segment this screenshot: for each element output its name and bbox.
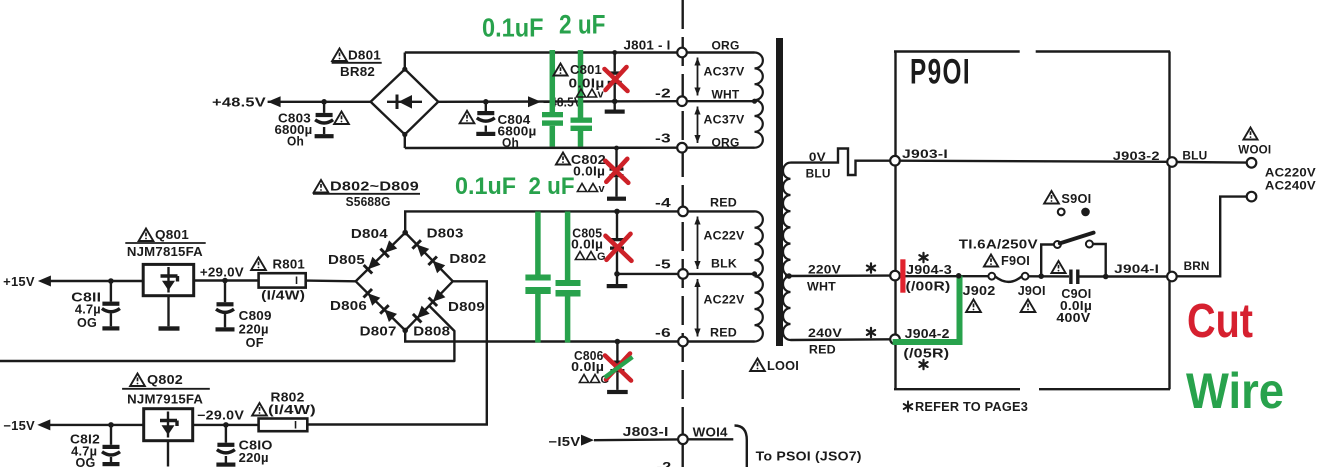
svg-text:2 uF: 2 uF xyxy=(559,10,606,40)
svg-text:AC220V: AC220V xyxy=(1265,166,1316,180)
svg-text:F9OI: F9OI xyxy=(1001,254,1030,268)
wire bridge right vertex to -29V feed xyxy=(307,281,487,424)
label L001 xyxy=(750,359,765,372)
svg-text:D807: D807 xyxy=(360,325,397,339)
chassis ground below C801 xyxy=(605,110,625,114)
capacitor C806 xyxy=(616,342,618,361)
svg-text:400V: 400V xyxy=(1056,311,1091,325)
svg-text:S9OI: S9OI xyxy=(1061,192,1091,206)
svg-text:−29.0V: −29.0V xyxy=(197,409,245,423)
cut mark X over C801 red xyxy=(605,67,628,91)
transformer primary tap -2 xyxy=(752,99,757,104)
node switch right xyxy=(1103,274,1109,280)
transformer core xyxy=(776,38,783,346)
svg-text:BRN: BRN xyxy=(1184,259,1210,273)
label C801 xyxy=(553,64,567,76)
diode D803 xyxy=(417,245,430,258)
svg-text:OG: OG xyxy=(77,316,97,330)
connector -6 terminal xyxy=(678,337,688,347)
svg-text:D802: D802 xyxy=(449,252,486,266)
capacitor C801 xyxy=(614,53,616,72)
wire AC240V to J904-1 xyxy=(1177,197,1248,277)
connector J904-3 terminal xyxy=(890,271,900,281)
node D801 top vertex xyxy=(402,67,407,72)
svg-text:AC240V: AC240V xyxy=(1265,179,1316,193)
node switch left xyxy=(1038,273,1044,279)
svg-text:BR82: BR82 xyxy=(340,65,375,79)
capacitor C901 xyxy=(1069,270,1072,285)
transformer T primary winding upper xyxy=(755,53,763,148)
capacitor C803 xyxy=(323,102,325,113)
diode D808 xyxy=(417,306,430,319)
svg-text:Cut: Cut xyxy=(1187,295,1253,348)
added capacitor 0.1uF green (lower) xyxy=(535,212,541,275)
capacitor C810 xyxy=(225,425,227,443)
svg-text:-4: -4 xyxy=(655,196,671,210)
regulator Q801 NJM7815FA xyxy=(139,229,154,242)
wire 240V RED xyxy=(791,338,891,341)
red cut bar at J904-3 xyxy=(900,259,905,292)
svg-text:Wire: Wire xyxy=(1186,363,1284,419)
svg-text:RED: RED xyxy=(710,198,737,210)
svg-text:D802~D809: D802~D809 xyxy=(330,180,419,194)
connector -5 terminal xyxy=(678,269,688,279)
added capacitor 0.1uF green (top) xyxy=(550,50,556,112)
wire BLU to W001 xyxy=(1177,161,1248,164)
svg-text:(I/4W): (I/4W) xyxy=(261,289,305,303)
svg-text:ORG: ORG xyxy=(712,41,740,53)
svg-text:220V: 220V xyxy=(808,263,841,277)
svg-text:BLU: BLU xyxy=(806,167,831,181)
svg-text:J903-2: J903-2 xyxy=(1113,149,1160,163)
wire -6 to transformer, RED xyxy=(688,340,755,342)
ground bar Q801 xyxy=(167,296,169,327)
node C804 junction xyxy=(483,99,489,105)
wire +48.5V feed xyxy=(268,101,371,103)
cut mark X over C806 red xyxy=(605,354,631,381)
diode symbol inside D801 xyxy=(387,101,422,103)
node +29.0V xyxy=(222,278,228,284)
svg-text:+29.0V: +29.0V xyxy=(200,266,244,280)
wire -2 to transformer, WHT xyxy=(687,100,755,102)
svg-text:TI.6A/250V: TI.6A/250V xyxy=(959,238,1039,252)
wire R801 to +29V node xyxy=(194,279,259,281)
wire Q802 to -15V xyxy=(46,424,144,426)
svg-text:-2: -2 xyxy=(655,87,671,101)
svg-text:240V: 240V xyxy=(808,326,842,340)
svg-text:J904-2: J904-2 xyxy=(905,327,950,341)
svg-text:(I/4W): (I/4W) xyxy=(268,403,316,417)
svg-text:D801: D801 xyxy=(348,49,381,63)
capacitor C802 xyxy=(615,148,617,168)
svg-text:BLU: BLU xyxy=(1182,149,1207,163)
wire 0V BLU with link symbol xyxy=(791,149,891,176)
label D801 BR82 xyxy=(332,49,347,62)
diode D807 xyxy=(385,310,398,323)
svg-text:P9OI: P9OI xyxy=(910,53,971,92)
connector -2 terminal xyxy=(677,96,687,106)
svg-text:220µ: 220µ xyxy=(239,323,269,337)
green stroke over C806 xyxy=(605,357,633,378)
transformer T secondary winding upper xyxy=(783,163,791,276)
svg-text:D804: D804 xyxy=(351,227,388,241)
svg-text:4.7µ: 4.7µ xyxy=(75,303,101,317)
note refer to page 3 xyxy=(904,402,913,412)
transformer T secondary winding lower xyxy=(783,276,790,340)
wire J904-3 to fuse xyxy=(900,275,989,277)
bridge rectifier D802-D809 diamond xyxy=(356,233,453,331)
diode D805 xyxy=(368,257,381,270)
transformer primary tap -5 xyxy=(752,271,757,276)
node bridge top vertex xyxy=(402,230,408,236)
connector J903-1 terminal xyxy=(890,156,900,166)
svg-text:220µ: 220µ xyxy=(239,451,269,465)
svg-text:-3: -3 xyxy=(655,132,671,146)
svg-text:C809: C809 xyxy=(239,309,272,323)
svg-text:2 uF: 2 uF xyxy=(529,173,575,200)
svg-text:BLK: BLK xyxy=(711,259,738,271)
connector J801-1 terminal xyxy=(677,48,687,58)
svg-text:Q802: Q802 xyxy=(147,373,183,387)
svg-text:Oh: Oh xyxy=(502,136,519,150)
diode D804 xyxy=(385,240,398,253)
svg-text:J902: J902 xyxy=(963,284,996,298)
wire -15V to J803-1 xyxy=(594,438,678,441)
wire bridge left vertex to R801 xyxy=(306,279,356,282)
svg-text:RED: RED xyxy=(809,343,836,357)
svg-text:Oh: Oh xyxy=(287,134,304,148)
switch S901 position dots xyxy=(1058,209,1065,216)
svg-text:0.0Iµ: 0.0Iµ xyxy=(571,237,603,251)
switch S901 label xyxy=(1044,191,1059,204)
svg-text:AC37V: AC37V xyxy=(704,115,745,127)
svg-text:0.1uF: 0.1uF xyxy=(455,173,516,200)
transformer T primary winding lower xyxy=(755,211,763,341)
wire bottom rail to J801-3 xyxy=(405,146,678,149)
svg-text:I: I xyxy=(295,275,298,287)
svg-text:D809: D809 xyxy=(448,300,485,314)
asterisk 220V xyxy=(867,263,875,272)
capacitor C811 xyxy=(110,281,112,302)
node C811 junction xyxy=(108,278,114,284)
svg-text:0.1uF: 0.1uF xyxy=(482,13,544,43)
bridge rectifier D801 diamond xyxy=(371,69,439,134)
svg-text:J9OI: J9OI xyxy=(1018,284,1046,298)
svg-text:R801: R801 xyxy=(273,258,306,272)
added capacitor 2uF green (top) xyxy=(578,50,584,118)
node -29.0V xyxy=(223,422,229,428)
connector J803-1 terminal xyxy=(678,435,688,445)
wire bridge tap to left rail xyxy=(0,306,454,361)
added capacitor 2uF green (lower) xyxy=(565,212,571,281)
svg-text:J903-I: J903-I xyxy=(902,147,948,161)
svg-text:J801 - I: J801 - I xyxy=(624,39,671,53)
svg-text:0V: 0V xyxy=(809,150,826,164)
node C803 junction xyxy=(321,99,327,105)
svg-text:−I5V: −I5V xyxy=(548,435,581,449)
svg-text:G: G xyxy=(597,251,606,263)
svg-text:0.0Iµ: 0.0Iµ xyxy=(571,360,604,374)
wire fuse to switch node xyxy=(1029,275,1070,278)
svg-text:J904-3: J904-3 xyxy=(906,263,952,277)
voltage arrow AC22V (5-6) xyxy=(697,279,699,337)
resistor R801 xyxy=(259,273,306,287)
node green wire top xyxy=(956,273,962,279)
wire -4 to transformer, RED xyxy=(688,210,755,212)
svg-text:J904-I: J904-I xyxy=(1114,262,1159,276)
node -2 junction xyxy=(612,99,618,105)
arrow -15V to J803 xyxy=(581,435,594,446)
svg-text:ORG: ORG xyxy=(712,138,740,150)
cut mark X over C802 red xyxy=(605,159,628,183)
wire J801-1 to transformer, ORG xyxy=(687,51,755,53)
cut mark X over C805 red xyxy=(606,234,632,261)
node bridge bottom vertex xyxy=(402,328,408,334)
svg-text:D803: D803 xyxy=(427,227,464,241)
svg-text:-5: -5 xyxy=(655,258,671,272)
capacitor C812 xyxy=(110,425,112,445)
svg-text:-2: -2 xyxy=(657,460,672,467)
diode D806 xyxy=(368,293,381,306)
wire Q801 to +15V xyxy=(46,280,143,282)
svg-text:RED: RED xyxy=(710,328,737,340)
switch arm xyxy=(1060,233,1094,244)
svg-text:S5688G: S5688G xyxy=(346,195,391,209)
capacitor C809 xyxy=(224,281,226,303)
node C812 junction xyxy=(108,422,114,428)
arrow +48.5V xyxy=(268,96,281,107)
P901 dashed box xyxy=(894,50,1020,52)
svg-text:WOI4: WOI4 xyxy=(693,426,728,440)
label D802~D809 S5688G xyxy=(314,180,329,193)
diode D802 xyxy=(433,261,446,274)
connector J904-2 terminal xyxy=(890,335,900,345)
wire -5 to C805 column xyxy=(617,273,679,275)
wire 220V WHT xyxy=(785,274,891,277)
wire J903-1 to J903-2 xyxy=(900,161,1168,162)
svg-text:(/00R): (/00R) xyxy=(906,280,951,294)
svg-text:C801: C801 xyxy=(570,63,602,77)
voltage arrow AC22V (4-5) xyxy=(697,217,699,270)
chassis ground below -5 xyxy=(616,274,618,284)
diode D809 xyxy=(433,289,446,302)
svg-text:+48.5V: +48.5V xyxy=(212,96,267,110)
svg-text:WHT: WHT xyxy=(712,90,740,102)
arrow -15V xyxy=(37,419,50,430)
svg-text:OF: OF xyxy=(246,336,264,350)
ground stub Q802 xyxy=(167,441,169,467)
svg-text:−15V: −15V xyxy=(3,419,35,433)
fuse F901 xyxy=(988,273,995,280)
svg-text:OG: OG xyxy=(76,456,96,467)
regulator Q802 box xyxy=(144,409,193,441)
connector -4 terminal xyxy=(678,207,688,217)
green jumper wire J904-2 to fuse node xyxy=(893,276,960,343)
svg-text:+15V: +15V xyxy=(3,275,35,289)
wire bridge bottom to -6 rail xyxy=(405,330,678,341)
asterisk 240V xyxy=(867,328,875,337)
svg-text:To PSOI (JSO7): To PSOI (JSO7) xyxy=(756,450,862,464)
svg-text:D806: D806 xyxy=(330,299,367,313)
connector J904-1 terminal xyxy=(1167,272,1177,282)
wire C901 to J904-1 xyxy=(1080,275,1168,277)
svg-text:AC22V: AC22V xyxy=(704,295,745,307)
wire -3 to transformer, ORG xyxy=(687,146,755,148)
svg-text:0.0Iµ: 0.0Iµ xyxy=(573,165,605,179)
svg-text:LOOI: LOOI xyxy=(767,359,799,373)
svg-text:AC22V: AC22V xyxy=(704,231,745,243)
svg-text:WHT: WHT xyxy=(807,280,836,294)
voltage arrow AC37V (1-2) xyxy=(697,58,699,96)
terminal W001 xyxy=(1247,158,1257,168)
svg-text:-6: -6 xyxy=(655,326,671,340)
svg-text:Q801: Q801 xyxy=(155,228,189,242)
svg-text:v: v xyxy=(599,183,606,195)
svg-text:NJM7815FA: NJM7815FA xyxy=(127,245,203,259)
regulator symbol inside Q801 xyxy=(167,267,169,293)
svg-text:J803-I: J803-I xyxy=(623,425,669,439)
wire -5 to transformer, BLK xyxy=(688,273,755,275)
capacitor C805 xyxy=(616,211,618,238)
svg-text:D805: D805 xyxy=(328,253,365,267)
svg-text:NJM7915FA: NJM7915FA xyxy=(127,393,203,407)
svg-text:REFER TO PAGE3: REFER TO PAGE3 xyxy=(915,400,1028,414)
wire bridge output to -2 with -48.5V arrow xyxy=(438,100,678,103)
wire bridge top to -4 rail xyxy=(405,211,678,232)
connector J801 dashed line xyxy=(682,0,684,467)
regulator symbol inside Q802 xyxy=(167,412,169,438)
wire Q802 to R802 node xyxy=(193,424,259,426)
svg-text:I: I xyxy=(294,420,297,432)
arrow +15V xyxy=(38,276,51,287)
svg-text:D808: D808 xyxy=(413,325,450,339)
wire W014 xyxy=(688,438,734,440)
wire top rail bridge D801 output to J801-1 xyxy=(405,51,678,53)
connector J903-2 terminal xyxy=(1167,157,1177,167)
svg-text:AC37V: AC37V xyxy=(704,67,745,79)
label Q802 NJM7915FA xyxy=(130,374,145,387)
svg-text:WOOI: WOOI xyxy=(1238,143,1271,157)
connector -3 terminal xyxy=(677,143,687,153)
label C802 xyxy=(556,153,570,165)
bracket to PS01 xyxy=(735,426,747,467)
svg-text:(/05R): (/05R) xyxy=(903,347,949,361)
capacitor C804 xyxy=(485,102,487,111)
voltage arrow AC37V (2-3) xyxy=(697,107,699,144)
switch S901 contacts xyxy=(1041,245,1053,277)
terminal AC240V xyxy=(1247,192,1257,202)
